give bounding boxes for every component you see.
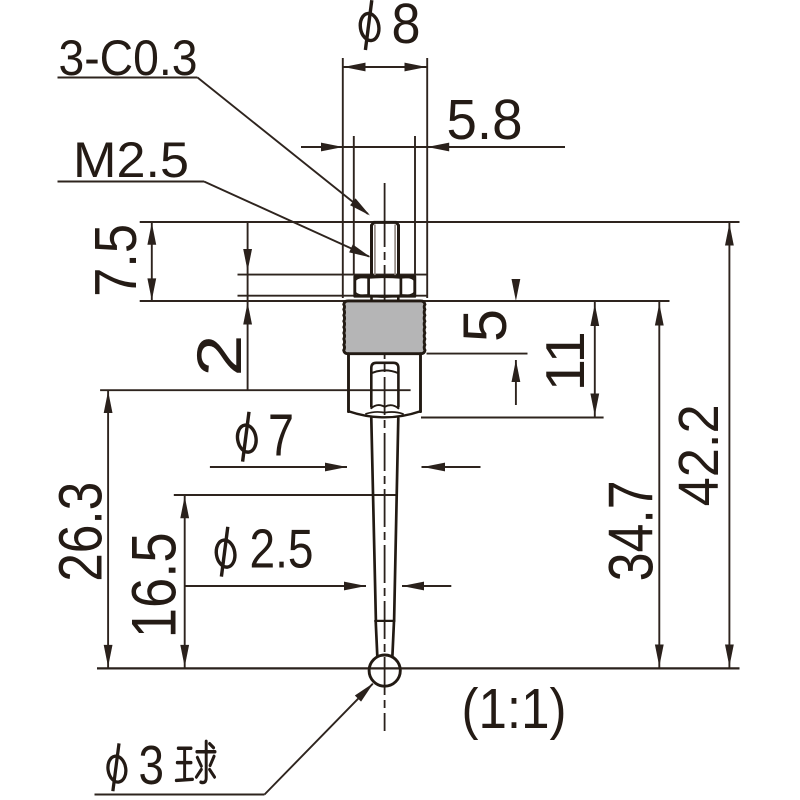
arrowhead 16.5 top [180,496,189,518]
extension line: phi8 left [342,58,344,298]
part: tip step line [375,620,394,622]
part: tip holder right edge [392,621,394,656]
arrowhead 42.2 bottom [725,645,734,667]
arrowhead 11 bottom [590,394,599,416]
part: phi7 stem right edge [419,354,422,412]
extension line: knurl bottom (ref for 5) [427,353,528,355]
part: tip holder left edge [376,621,378,656]
label phi3 [106,743,128,791]
label phi2.5 [214,527,236,577]
svg-text:(1:1): (1:1) [462,677,567,741]
dimension line phi7 left part [210,466,347,468]
centerline of part [384,183,386,247]
part: tip-ball junction ticks [377,655,392,657]
svg-text:M2.5: M2.5 [73,132,189,188]
part: slot outline [371,363,398,407]
extension line: phi8 right [426,58,428,298]
part: hex flange outline [355,277,415,297]
arrowhead leader phi3 ball [355,680,377,702]
dimension line 42.2 [728,222,730,668]
part: hex facet line right [400,277,403,296]
arrowhead 5 upper [512,279,521,301]
label phi7 [236,412,258,462]
svg-text:26.3: 26.3 [47,482,115,582]
arrowhead 5.8 left [321,143,343,152]
extension line: top of thread (ref for 7.5 and 42.2) [140,221,740,223]
arrowhead phi2.5 right [402,582,424,591]
leader phi3 ball underline [95,794,265,796]
part: knurled collar phi8 (gray, scalloped edges) [344,301,425,354]
arrowhead 2 upper [243,249,252,271]
arrowhead 26.3 top [104,391,113,413]
dimension line 7.5 [151,222,153,301]
extension line: hex top (ref for 2) [238,274,428,276]
svg-text:42.2: 42.2 [667,404,731,506]
part: contact ball phi3 [369,655,400,686]
svg-text:16.5: 16.5 [119,532,189,638]
extension line: 11 bottom [421,417,604,419]
extension line: 16.5 top [174,494,396,496]
svg-text:34.7: 34.7 [596,480,666,581]
extension line: 5.8 left [353,136,355,275]
arrowhead 2 lower [243,303,252,325]
arrowhead leader 3-C0.3 [350,198,373,219]
arrowhead 7.5 top [147,223,156,245]
part: slot break wave [371,405,398,408]
label kanji ball (tama) drawn as strokes [176,741,215,782]
leader M2.5 underline [58,181,205,183]
arrowhead phi8 right [405,63,427,72]
dimension line phi2.5 right part [402,585,451,587]
part: hex top chamfer arcs [355,277,415,280]
label phi8 [358,0,380,50]
part: thread minor diameter lines [374,225,376,275]
arrowhead 16.5 bottom [180,645,189,667]
leader 3-C0.3 line [198,78,369,215]
arrowhead 5 lower [512,360,521,382]
dimension line 2 [247,222,249,390]
svg-text:7: 7 [268,403,294,469]
dimension tail 5 lower [515,360,517,405]
arrowhead 11 top [590,304,599,326]
leader 3-C0.3 underline [58,77,198,79]
dimension line phi7 right part [422,466,481,468]
arrowhead phi8 left [344,63,366,72]
part: transition wave detail [366,412,403,414]
arrowhead 7.5 bottom [147,278,156,300]
extension line: 5.8 right [414,136,416,275]
dimension line 16.5 [184,495,186,668]
svg-text:5.8: 5.8 [447,88,523,152]
svg-text:7.5: 7.5 [83,224,149,297]
svg-text:2.5: 2.5 [250,517,314,579]
leader phi3 ball line [265,684,373,795]
leader M2.5 line [204,182,369,257]
part: hex facet line left [367,277,370,296]
dimension line phi2.5 left part [185,585,366,587]
arrowhead 34.7 top [655,304,664,326]
svg-text:3: 3 [139,734,165,796]
dimension line 5.8 [301,146,565,148]
dimension line phi8 [343,66,427,68]
part: taper right edge [394,418,398,621]
arrowhead 5.8 right [427,143,449,152]
baseline (ref line at tip of ball) [97,667,740,669]
extension line: 26.3 top [100,389,411,391]
dimension line 26.3 [107,390,109,668]
part: hex bottom chamfer arcs [355,292,415,297]
arrowhead phi7 left [325,463,347,472]
arrowhead 42.2 top [725,224,734,246]
arrowhead 26.3 bottom [104,645,113,667]
part: slot inner arc [371,370,398,373]
part: taper left edge [371,418,376,621]
part: stem bottom transition arc [349,411,421,417]
part: phi7 stem left edge [347,354,350,412]
svg-text:2: 2 [185,335,255,377]
extension line: hex bottom (ref for 2) [238,295,428,297]
dimension line 11 [594,301,596,418]
arrowhead leader M2.5 [349,244,373,261]
extension line: top of knurl (ref for 7.5, 5, 11, 34.7) [140,300,670,302]
arrowhead phi2.5 left [344,582,366,591]
part: neck between hex and knurl [370,296,373,301]
dimension line 34.7 [658,301,660,668]
svg-text:8: 8 [392,0,421,56]
svg-text:11: 11 [534,331,596,391]
part: threaded stud M2.5 [372,222,399,276]
arrowhead phi7 right [423,463,445,472]
svg-text:5: 5 [451,309,519,342]
svg-text:3-C0.3: 3-C0.3 [59,30,198,86]
arrowhead 34.7 bottom [655,645,664,667]
